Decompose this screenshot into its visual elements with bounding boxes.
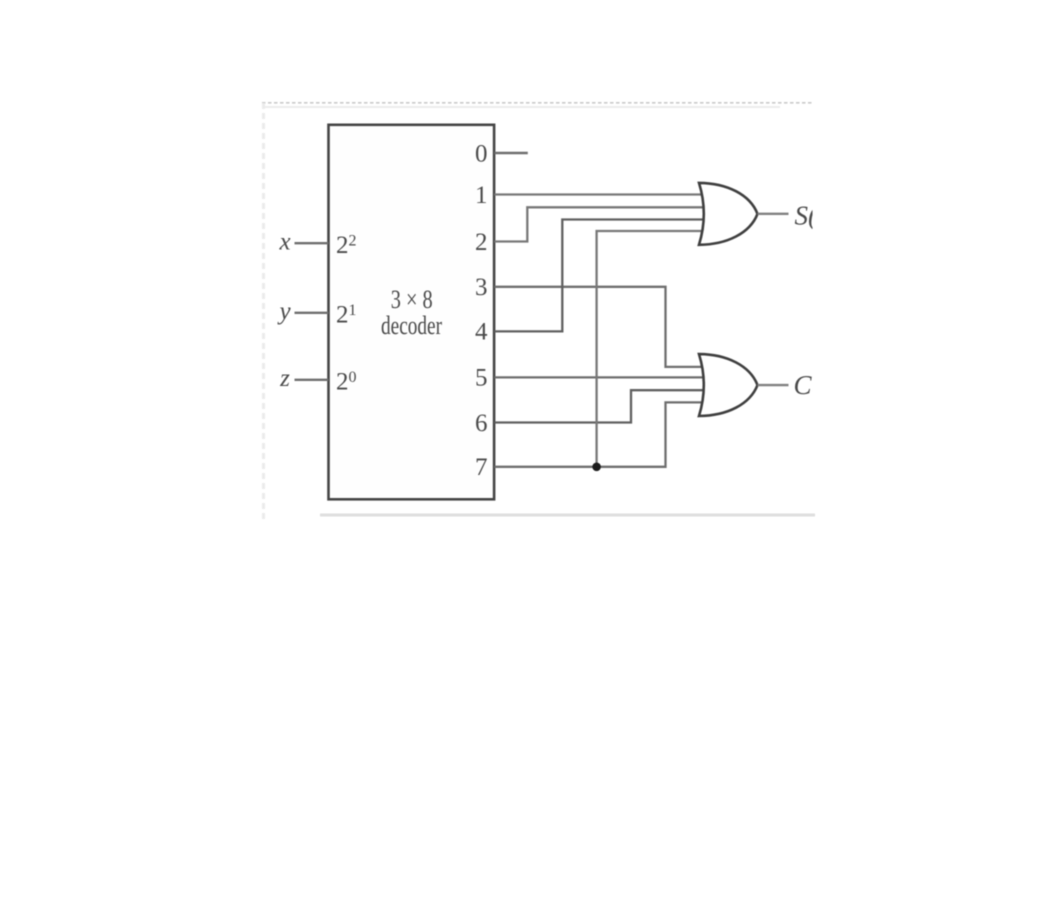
OR gate C (carry): [699, 354, 758, 416]
wire pin 1 to OR gate S input 1: [494, 193, 702, 195]
svg-text:2: 2: [475, 229, 488, 256]
svg-text:3: 3: [475, 274, 488, 301]
wire pin 7 to corner: [494, 402, 702, 466]
wire C output: [758, 384, 789, 386]
svg-text:1: 1: [475, 182, 488, 209]
svg-text:z: z: [279, 365, 290, 392]
svg-text:4: 4: [475, 319, 488, 346]
wire pin 6 to OR gate C input 3: [494, 390, 703, 422]
wire S output: [758, 213, 789, 215]
svg-text:0: 0: [475, 140, 488, 167]
wire pin 3 to OR gate C input 1: [494, 287, 703, 367]
OR gate S (sum): [699, 183, 758, 245]
svg-text:decoder: decoder: [381, 311, 442, 340]
wire pin 2 to OR gate S input 2: [494, 207, 703, 241]
wire input x: [295, 242, 329, 244]
wire pin 0 stub: [494, 152, 528, 154]
svg-text:6: 6: [475, 410, 488, 437]
wire pin 5 to OR gate C input 2: [494, 376, 703, 378]
svg-text:3 × 8: 3 × 8: [391, 285, 433, 314]
wire pin 7 branch to OR gate S input 4: [597, 231, 703, 467]
svg-text:x: x: [278, 228, 290, 255]
svg-text:y: y: [276, 298, 291, 325]
wire input y: [295, 312, 329, 314]
wire pin 4 to OR gate S input 3: [494, 220, 703, 332]
junction node on pin 7 wire: [592, 463, 601, 472]
svg-text:5: 5: [475, 365, 488, 392]
decoder U1 (3x8 decoder block): [329, 125, 495, 500]
wire input z: [295, 379, 329, 381]
svg-text:7: 7: [475, 454, 488, 481]
